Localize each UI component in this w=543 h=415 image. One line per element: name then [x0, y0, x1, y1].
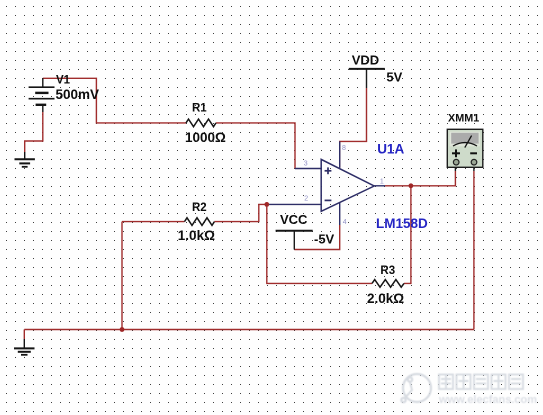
svg-text:R2: R2	[192, 202, 207, 214]
wire VCC stub black	[293, 231, 295, 250]
wire pin8 navy stub	[339, 141, 341, 167]
svg-text:1.0kΩ: 1.0kΩ	[178, 228, 215, 243]
wire R2 left down to bottom rail	[121, 222, 123, 330]
wire bottom rail	[24, 329, 474, 331]
op-amp plus sign	[325, 167, 332, 174]
junction output node	[409, 183, 414, 188]
ground bottom rail	[14, 339, 35, 355]
wire R2 left lead	[122, 221, 185, 223]
svg-text:4: 4	[343, 219, 347, 226]
wire R2 right to minus junction	[214, 204, 266, 221]
svg-text:1: 1	[380, 179, 384, 186]
svg-text:R1: R1	[192, 103, 207, 115]
svg-text:U1A: U1A	[377, 142, 404, 157]
svg-text:2.0kΩ: 2.0kΩ	[367, 291, 404, 306]
svg-text:5V: 5V	[386, 70, 402, 85]
VDD symbol	[349, 68, 385, 70]
svg-text:VCC: VCC	[280, 212, 308, 227]
svg-text:2: 2	[304, 195, 308, 202]
VCC symbol	[276, 230, 313, 232]
wire XMM plus terminal black part	[454, 165, 456, 171]
svg-text:www.elecfans.com: www.elecfans.com	[438, 394, 537, 406]
wire VDD stub black	[366, 69, 368, 88]
wire pin8 to VDD	[340, 88, 367, 168]
battery V1	[29, 78, 55, 112]
wire plus input stub	[295, 168, 321, 170]
wire output to XMM plus	[385, 171, 455, 186]
resistor R3	[372, 280, 404, 288]
wire op-amp output stub	[374, 185, 385, 187]
wire V1 bottom to ground	[25, 112, 43, 152]
wire pin4 navy stub	[339, 203, 341, 226]
wire V1 top to corner	[43, 78, 186, 123]
watermark logo circle	[401, 374, 431, 402]
wire XMM minus down to rail	[473, 171, 475, 330]
wire pin4 to VCC	[294, 225, 339, 250]
svg-text:LM158D: LM158D	[376, 216, 428, 231]
op-amp U1 triangle	[321, 159, 374, 211]
svg-text:V1: V1	[56, 75, 71, 87]
svg-text:3: 3	[304, 161, 308, 168]
wire R1 right to plus-input corner	[216, 123, 295, 169]
watermark chinese text blocks	[439, 375, 523, 390]
multimeter XMM1	[447, 129, 483, 167]
resistor R1	[186, 119, 216, 127]
svg-text:8: 8	[342, 145, 346, 152]
wire rail red part above ground stub	[23, 330, 25, 340]
wire XMM minus terminal black part	[473, 165, 475, 171]
svg-text:R3: R3	[380, 265, 395, 277]
svg-text:VDD: VDD	[352, 52, 379, 67]
op-amp minus sign	[325, 199, 332, 201]
junction R2 bottom rail	[120, 327, 125, 332]
svg-text:XMM1: XMM1	[448, 113, 479, 125]
svg-text:-5V: -5V	[314, 231, 335, 246]
junction minus input	[264, 202, 269, 207]
wire R3 right up to output node	[404, 186, 411, 284]
resistor R2	[185, 218, 215, 226]
svg-text:500mV: 500mV	[56, 87, 100, 102]
wire minus input stub	[267, 203, 321, 205]
ground V1	[15, 152, 35, 167]
wire feedback: junction down, right to R3	[267, 204, 372, 283]
svg-text:1000Ω: 1000Ω	[185, 130, 226, 145]
